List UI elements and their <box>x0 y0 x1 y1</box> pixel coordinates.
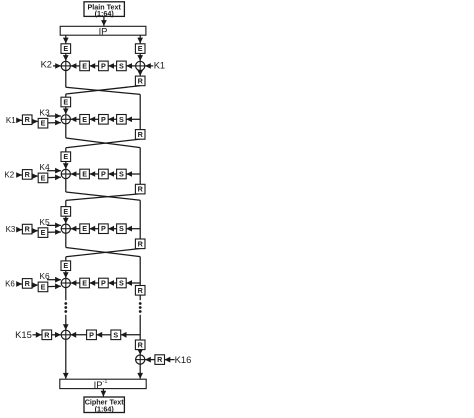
svg-text:R: R <box>25 170 31 179</box>
final round box P <box>87 330 97 340</box>
wire K2 to left xor <box>53 63 61 69</box>
wire right column down round 3 <box>139 148 141 185</box>
svg-text:K2: K2 <box>41 59 52 69</box>
wire into round 2 left E box <box>65 94 67 97</box>
svg-text:E: E <box>138 44 143 53</box>
wire P to final left xor <box>70 332 86 338</box>
wire R to key E round 4 <box>32 228 38 234</box>
wire IP to right E box <box>137 35 143 43</box>
wire S to P round 2 <box>108 117 116 123</box>
round 4 box P in f-row <box>99 224 109 234</box>
label K2 round 3 <box>4 171 14 180</box>
wire K5 to xor round 4 <box>47 223 61 229</box>
wire right column to S round 3 <box>126 171 140 177</box>
svg-text:E: E <box>82 170 87 179</box>
register R2 <box>135 130 145 140</box>
wire R to key E round 3 <box>32 173 38 179</box>
wire S to P round 4 <box>108 226 116 232</box>
wire round 4 left xor output down <box>65 233 67 247</box>
svg-text:S: S <box>119 61 124 70</box>
wire cross left-to-right after round 4 <box>66 248 140 257</box>
register R fed by K16 <box>155 355 165 365</box>
svg-text:R: R <box>25 115 31 124</box>
xor final round right <box>136 355 145 364</box>
xor round 1 right <box>136 61 145 70</box>
wire cross right-to-left after round 3 <box>66 194 140 201</box>
svg-text:S: S <box>119 279 124 288</box>
initial permutation box IP <box>60 26 146 37</box>
wire E to left xor round 5 <box>71 280 80 286</box>
round 4 box E in f-row <box>80 224 90 234</box>
wire cross left-to-right after round 1 <box>66 87 140 94</box>
round 5 box S in f-row <box>117 278 127 288</box>
round 2 box P in f-row <box>99 115 109 125</box>
label K3 round 2 <box>39 107 50 117</box>
round 1 box E in f-row <box>80 61 90 71</box>
svg-text:R: R <box>25 279 31 288</box>
label K1 round 2 <box>6 116 16 125</box>
svg-text:K1: K1 <box>154 61 165 71</box>
wire into round 4 left E box <box>65 200 67 206</box>
wire round 5 left xor down to dots <box>65 288 67 301</box>
wire IP inverse to cipher text <box>101 389 107 397</box>
wire P to E round 1 <box>89 63 98 69</box>
wire right xor to S round 1 <box>126 63 135 69</box>
round 2 left expansion box E above xor <box>61 97 71 107</box>
wire cross right-to-left after round 2 <box>66 139 140 148</box>
xor round 3 left <box>61 169 70 178</box>
wire S to P round 3 <box>108 171 116 177</box>
register R3 <box>135 184 145 194</box>
wire round 2 left xor output down <box>65 124 67 138</box>
svg-text:R: R <box>157 355 163 364</box>
round 5 box E in f-row <box>80 278 90 288</box>
wire into round 5 left E box <box>65 257 67 261</box>
svg-text:R: R <box>44 330 50 339</box>
svg-text:K1: K1 <box>6 116 16 125</box>
round 2 box E in f-row <box>80 115 90 125</box>
round 1 box P in f-row <box>99 61 109 71</box>
wire E to left xor round 3 <box>71 171 80 177</box>
final permutation box IP inverse <box>60 379 146 390</box>
svg-text:K2: K2 <box>4 171 14 180</box>
key expansion E round 5 <box>38 282 48 292</box>
wire R to final left xor <box>52 332 61 338</box>
wire S to P round 1 <box>108 63 116 69</box>
wire R to key E round 5 <box>32 282 38 288</box>
wire E to left xor round 1 <box>71 63 80 69</box>
svg-text:K6: K6 <box>5 280 15 289</box>
round 5 left expansion box E above xor <box>61 261 71 271</box>
round 3 box S in f-row <box>117 169 127 179</box>
wire right xor to R1 register <box>137 70 143 76</box>
svg-text:(1:64): (1:64) <box>95 404 115 413</box>
svg-text:K3: K3 <box>6 225 16 234</box>
round 3 box E in f-row <box>80 169 90 179</box>
wire K1 to key register R round 2 <box>16 118 22 124</box>
wire right column to S final round <box>121 332 141 338</box>
final round key register R <box>42 330 52 340</box>
wire P to E round 3 <box>89 171 98 177</box>
svg-text:R: R <box>138 340 144 349</box>
round 4 left expansion box E above xor <box>61 207 71 217</box>
wire K1 to right xor <box>145 63 153 69</box>
wire right column to S round 4 <box>126 226 140 232</box>
svg-text:(1:64): (1:64) <box>95 9 115 18</box>
wire K16 to R register <box>165 357 175 363</box>
wire right E to right XOR round 1 <box>137 53 143 61</box>
svg-text:E: E <box>41 228 46 237</box>
svg-text:E: E <box>82 61 87 70</box>
xor round 4 left <box>61 224 70 233</box>
svg-text:K16: K16 <box>175 354 192 365</box>
svg-text:P: P <box>101 61 106 70</box>
wire IP to left E box <box>63 35 69 43</box>
key register R round 3 <box>22 170 32 180</box>
register R5 <box>135 286 145 296</box>
wire cross left-to-right after round 3 <box>66 192 140 200</box>
wire into round 3 left E box <box>65 148 67 152</box>
label K1 <box>154 61 165 71</box>
wire E to xor round 3 <box>63 162 69 170</box>
label K3 round 4 <box>6 225 16 234</box>
svg-text:P: P <box>89 330 94 339</box>
svg-text:K15: K15 <box>15 329 32 340</box>
round 4 box S in f-row <box>117 224 127 234</box>
label K6 round 5 <box>39 271 50 281</box>
wire left E to left XOR round 1 <box>63 53 69 61</box>
wire P to E round 2 <box>89 117 98 123</box>
wire P to E round 4 <box>89 226 98 232</box>
wire key E to xor round 5 <box>48 283 61 289</box>
svg-text:S: S <box>119 224 124 233</box>
wire E to xor round 2 <box>63 107 69 115</box>
round 1 left expansion box E <box>61 44 71 54</box>
label K16 <box>175 354 192 365</box>
svg-text:E: E <box>63 98 68 107</box>
round 1 right expansion box E <box>135 44 145 54</box>
svg-text:R: R <box>138 76 144 85</box>
wire right column to S round 5 <box>126 280 140 286</box>
wire S to P final round <box>96 332 111 338</box>
wire K15 to final R register <box>33 332 42 338</box>
svg-text:S: S <box>119 115 124 124</box>
wire final right xor to IP inverse <box>137 364 143 379</box>
svg-text:P: P <box>101 115 106 124</box>
svg-text:E: E <box>41 282 46 291</box>
register R4 <box>135 239 145 249</box>
wire dots to final left xor <box>63 315 69 330</box>
round 3 box P in f-row <box>99 169 109 179</box>
round 3 left expansion box E above xor <box>61 152 71 162</box>
svg-text:E: E <box>63 261 68 270</box>
final round box S <box>111 330 121 340</box>
xor round 5 left <box>61 278 70 287</box>
wire K3 to key register R round 4 <box>16 227 22 233</box>
wire K3 to xor round 2 <box>47 113 61 119</box>
wire key E to xor round 3 <box>48 175 61 181</box>
key expansion E round 2 <box>38 118 48 128</box>
left ellipsis dots <box>64 302 67 313</box>
svg-text:R: R <box>138 185 144 194</box>
key expansion E round 4 <box>38 228 48 238</box>
wire right column down round 5 <box>139 257 141 294</box>
svg-text:E: E <box>63 44 68 53</box>
label K15 <box>15 329 32 340</box>
svg-text:P: P <box>101 279 106 288</box>
round 1 box S in f-row <box>117 61 127 71</box>
wire right column to S round 2 <box>126 117 140 123</box>
svg-text:P: P <box>101 224 106 233</box>
wire S to P round 5 <box>108 280 116 286</box>
wire round 1 left xor output down <box>65 71 67 88</box>
round 5 box P in f-row <box>99 278 109 288</box>
svg-text:R: R <box>138 239 144 248</box>
wire plain text to IP <box>101 16 107 26</box>
round 2 box S in f-row <box>117 115 127 125</box>
xor round 2 left <box>61 115 70 124</box>
svg-text:R: R <box>138 286 144 295</box>
wire K16 R register to right xor <box>145 357 155 363</box>
wire K2 to key register R round 3 <box>16 172 22 178</box>
label K2 <box>41 59 52 69</box>
key expansion E round 3 <box>38 173 48 183</box>
wire right dots down final column <box>139 315 141 340</box>
wire E to left xor round 2 <box>71 117 80 123</box>
wire cross left-to-right after round 2 <box>66 138 140 148</box>
cipher text output box <box>84 397 124 413</box>
key register R round 5 <box>22 279 32 289</box>
label K4 round 3 <box>39 162 50 172</box>
svg-text:S: S <box>113 330 118 339</box>
key register R round 4 <box>22 224 32 234</box>
plain text input box <box>84 2 124 18</box>
right ellipsis dots <box>139 302 142 313</box>
wire round 3 left xor output down <box>65 179 67 192</box>
register R final right upper <box>135 340 145 350</box>
svg-text:S: S <box>119 170 124 179</box>
wire E to xor round 4 <box>63 216 69 224</box>
wire right column down round 2 <box>139 94 141 129</box>
wire K4 to xor round 3 <box>47 168 61 174</box>
svg-text:E: E <box>63 152 68 161</box>
svg-text:IP: IP <box>99 26 108 37</box>
wire cross right-to-left after round 4 <box>66 249 140 257</box>
label K5 round 4 <box>39 217 50 227</box>
wire K6 to key register R round 5 <box>16 281 22 287</box>
wire final left xor to IP inverse <box>63 339 69 378</box>
svg-text:E: E <box>82 115 87 124</box>
svg-text:P: P <box>101 170 106 179</box>
wire R5 down to dots <box>139 295 141 300</box>
svg-text:R: R <box>138 130 144 139</box>
wire E to left xor round 4 <box>71 226 80 232</box>
key register R round 2 <box>22 115 32 125</box>
svg-text:E: E <box>41 173 46 182</box>
svg-text:E: E <box>41 119 46 128</box>
wire K6 to xor round 5 <box>47 277 61 283</box>
xor final round left <box>61 330 70 339</box>
label K6 round 5 <box>5 280 15 289</box>
svg-text:E: E <box>82 224 87 233</box>
svg-text:E: E <box>82 279 87 288</box>
register R1 <box>135 76 145 86</box>
wire key E to xor round 4 <box>48 229 61 235</box>
wire right column down round 4 <box>139 200 141 239</box>
xor round 1 left <box>61 61 70 70</box>
wire cross right-to-left after round 1 <box>66 86 140 94</box>
wire key E to xor round 2 <box>48 120 61 126</box>
svg-text:E: E <box>63 207 68 216</box>
wire E to xor round 5 <box>63 271 69 279</box>
wire R to right xor final <box>137 349 143 355</box>
svg-text:R: R <box>25 225 31 234</box>
wire R to key E round 2 <box>32 119 38 125</box>
wire P to E round 5 <box>89 280 98 286</box>
